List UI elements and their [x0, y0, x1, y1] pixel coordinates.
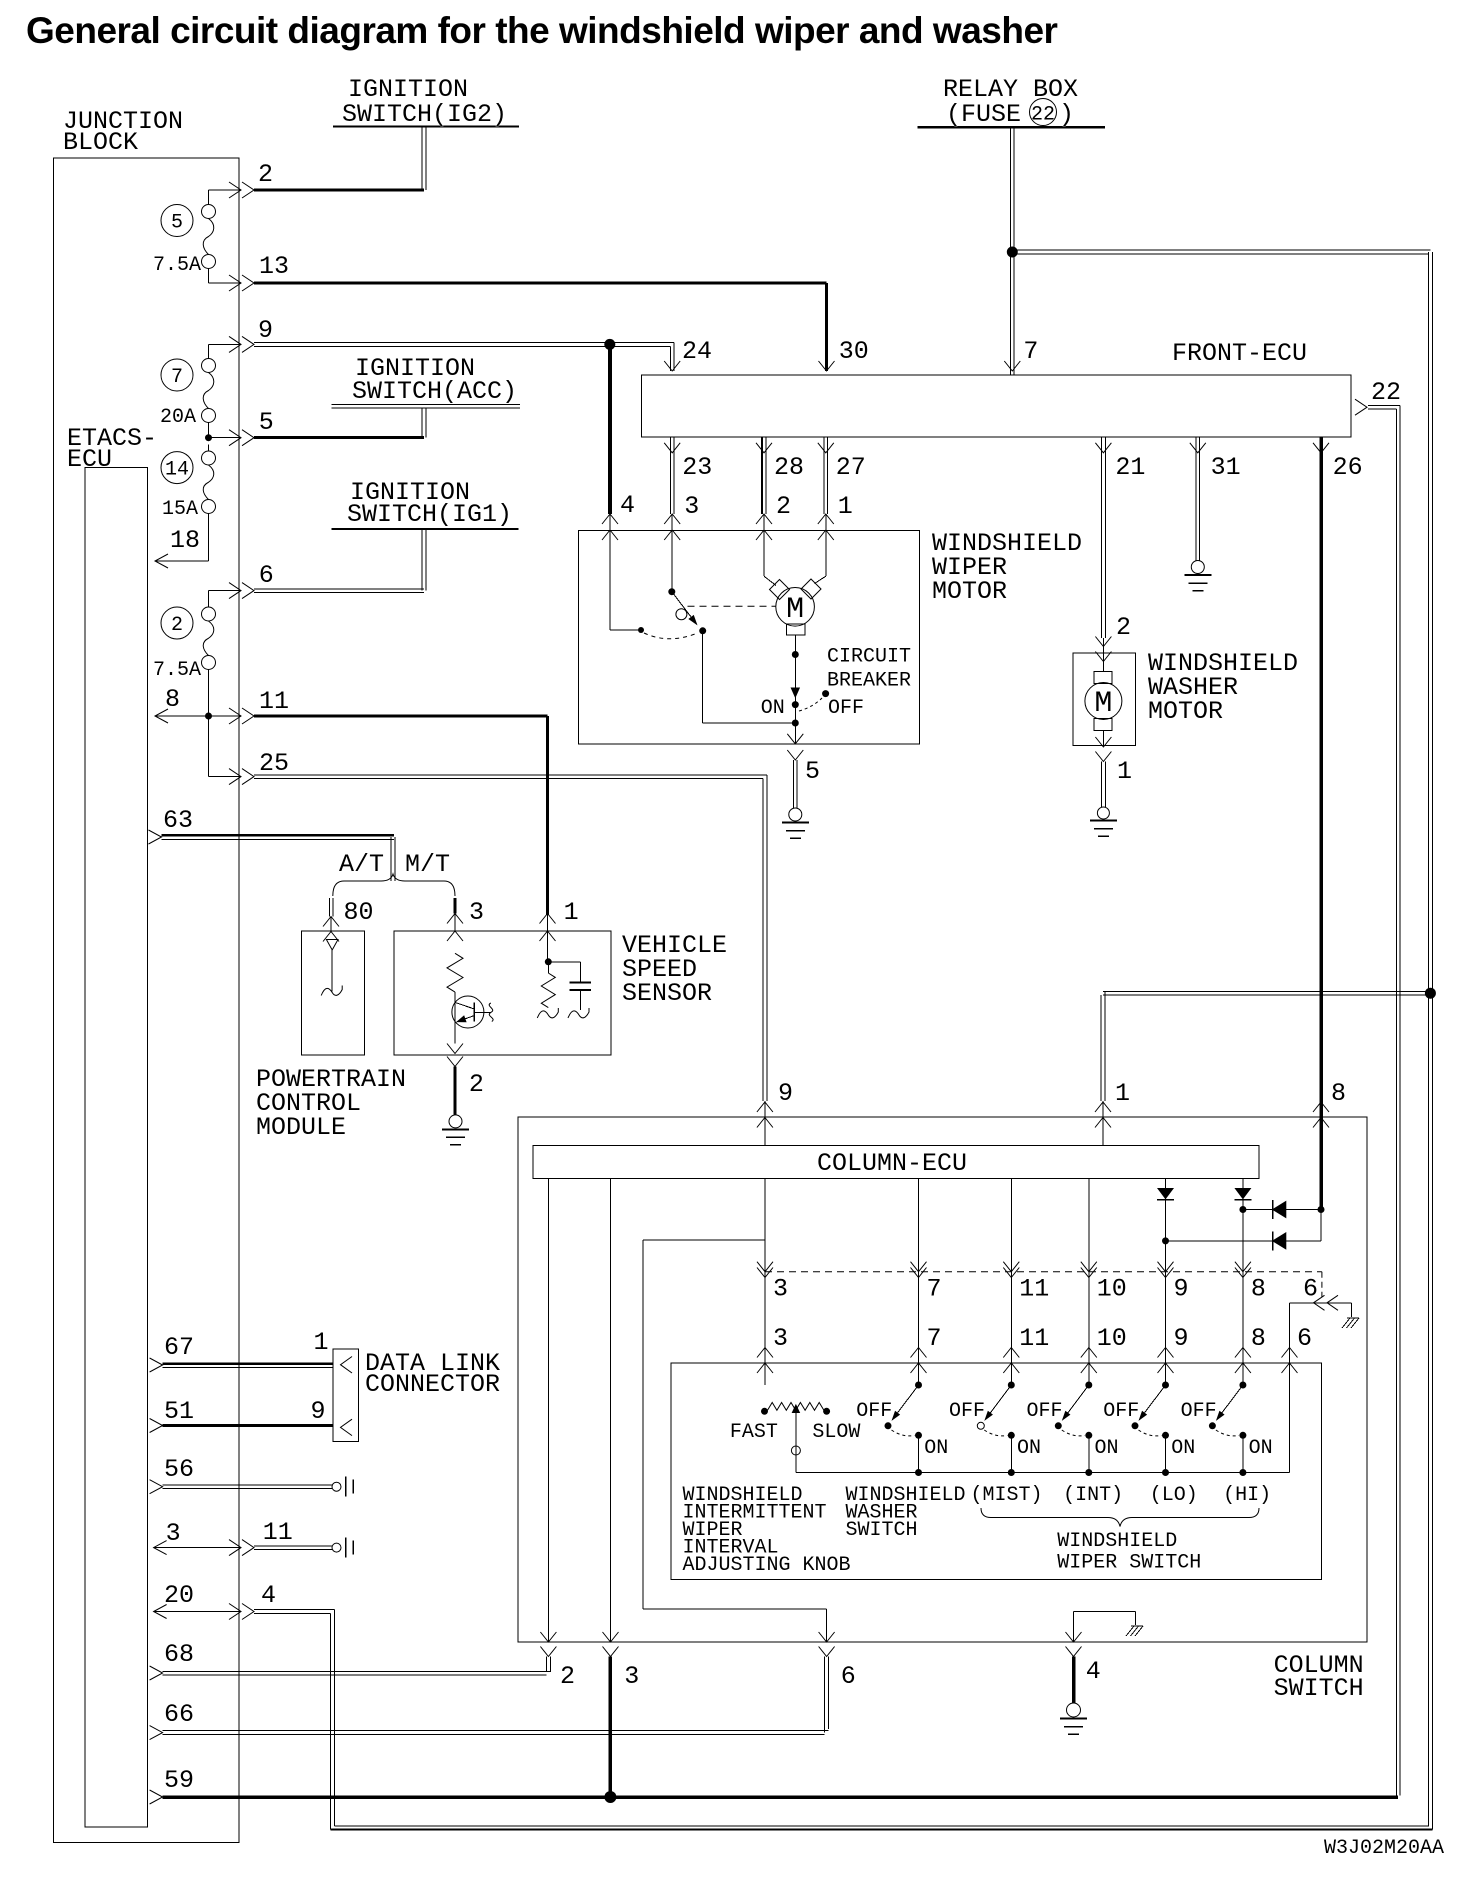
svg-text:ON: ON [924, 1437, 948, 1460]
svg-text:8: 8 [1251, 1324, 1266, 1353]
svg-text:General circuit diagram for th: General circuit diagram for the windshie… [26, 10, 1058, 51]
svg-text:67: 67 [164, 1333, 194, 1362]
svg-text:2: 2 [171, 614, 183, 637]
svg-text:30: 30 [839, 337, 869, 366]
svg-text:W3J02M20AA: W3J02M20AA [1324, 1837, 1444, 1860]
svg-text:MOTOR: MOTOR [1148, 697, 1223, 726]
svg-text:COLUMN-ECU: COLUMN-ECU [817, 1149, 967, 1178]
svg-text:7: 7 [171, 366, 183, 389]
svg-text:5: 5 [171, 212, 183, 235]
svg-text:BLOCK: BLOCK [63, 128, 138, 157]
svg-text:5: 5 [805, 757, 820, 786]
svg-text:2: 2 [1116, 613, 1131, 642]
svg-text:ON: ON [1249, 1437, 1273, 1460]
svg-text:7.5A: 7.5A [153, 254, 201, 277]
svg-text:26: 26 [1333, 453, 1363, 482]
svg-text:7: 7 [927, 1275, 942, 1304]
svg-text:80: 80 [344, 898, 374, 927]
svg-text:(HI): (HI) [1223, 1484, 1271, 1507]
svg-text:1: 1 [1115, 1079, 1130, 1108]
svg-text:OFF: OFF [1181, 1400, 1217, 1423]
svg-text:21: 21 [1115, 453, 1145, 482]
svg-text:23: 23 [682, 453, 712, 482]
svg-text:ON: ON [1171, 1437, 1195, 1460]
svg-text:8: 8 [1331, 1079, 1346, 1108]
svg-text:18: 18 [170, 526, 200, 555]
svg-text:8: 8 [165, 685, 180, 714]
svg-text:24: 24 [682, 337, 712, 366]
svg-text:6: 6 [841, 1662, 856, 1691]
svg-text:56: 56 [164, 1455, 194, 1484]
svg-text:3: 3 [624, 1662, 639, 1691]
svg-text:9: 9 [1174, 1275, 1189, 1304]
svg-text:ON: ON [761, 697, 785, 720]
svg-text:7.5A: 7.5A [153, 659, 201, 682]
svg-text:(INT): (INT) [1063, 1484, 1123, 1507]
svg-text:ON: ON [1095, 1437, 1119, 1460]
svg-text:SWITCH: SWITCH [846, 1519, 918, 1542]
svg-text:OFF: OFF [949, 1400, 985, 1423]
svg-text:8: 8 [1251, 1275, 1266, 1304]
svg-text:MOTOR: MOTOR [932, 577, 1007, 606]
svg-text:3: 3 [773, 1275, 788, 1304]
svg-text:M: M [786, 593, 804, 627]
svg-text:1: 1 [838, 492, 853, 521]
svg-text:10: 10 [1097, 1324, 1127, 1353]
svg-text:M: M [1094, 687, 1112, 721]
svg-text:1: 1 [314, 1328, 329, 1357]
svg-text:11: 11 [259, 687, 289, 716]
svg-text:15A: 15A [162, 498, 198, 521]
svg-text:SWITCH(IG1): SWITCH(IG1) [347, 500, 512, 529]
svg-text:(MIST): (MIST) [971, 1484, 1043, 1507]
svg-text:OFF: OFF [828, 697, 864, 720]
svg-text:): ) [1059, 100, 1074, 129]
svg-text:4: 4 [620, 491, 635, 520]
svg-text:FRONT-ECU: FRONT-ECU [1172, 339, 1307, 368]
svg-text:WIPER SWITCH: WIPER SWITCH [1057, 1552, 1201, 1575]
svg-text:3: 3 [684, 492, 699, 521]
svg-text:3: 3 [469, 898, 484, 927]
svg-text:22: 22 [1031, 104, 1055, 127]
svg-text:13: 13 [259, 252, 289, 281]
svg-text:SWITCH: SWITCH [1274, 1674, 1364, 1703]
svg-text:OFF: OFF [1103, 1400, 1139, 1423]
svg-text:CIRCUIT: CIRCUIT [827, 646, 911, 669]
svg-text:11: 11 [1019, 1275, 1049, 1304]
svg-text:7: 7 [1023, 337, 1038, 366]
svg-text:SENSOR: SENSOR [622, 979, 712, 1008]
svg-text:WINDSHIELD: WINDSHIELD [1057, 1530, 1177, 1553]
svg-text:ECU: ECU [67, 445, 112, 474]
svg-text:ADJUSTING KNOB: ADJUSTING KNOB [683, 1554, 851, 1577]
svg-text:31: 31 [1211, 453, 1241, 482]
svg-text:66: 66 [164, 1700, 194, 1729]
svg-text:3: 3 [773, 1324, 788, 1353]
svg-text:OFF: OFF [856, 1400, 892, 1423]
svg-text:(LO): (LO) [1150, 1484, 1198, 1507]
svg-text:9: 9 [778, 1079, 793, 1108]
svg-text:9: 9 [258, 316, 273, 345]
svg-text:CONNECTOR: CONNECTOR [365, 1370, 500, 1399]
svg-text:6: 6 [259, 561, 274, 590]
svg-text:51: 51 [164, 1397, 194, 1426]
svg-text:4: 4 [261, 1581, 276, 1610]
svg-text:OFF: OFF [1027, 1400, 1063, 1423]
svg-text:2: 2 [258, 160, 273, 189]
svg-text:5: 5 [259, 408, 274, 437]
svg-text:MODULE: MODULE [256, 1113, 346, 1142]
svg-text:1: 1 [1117, 757, 1132, 786]
svg-text:28: 28 [774, 453, 804, 482]
svg-text:59: 59 [164, 1766, 194, 1795]
svg-text:2: 2 [560, 1662, 575, 1691]
svg-text:BREAKER: BREAKER [827, 670, 911, 693]
svg-text:SWITCH(IG2): SWITCH(IG2) [342, 100, 507, 129]
svg-text:M/T: M/T [405, 850, 450, 879]
svg-text:6: 6 [1297, 1324, 1312, 1353]
svg-text:4: 4 [1086, 1657, 1101, 1686]
svg-text:2: 2 [776, 492, 791, 521]
svg-text:2: 2 [469, 1070, 484, 1099]
svg-text:3: 3 [166, 1519, 181, 1548]
svg-text:10: 10 [1097, 1275, 1127, 1304]
svg-text:SLOW: SLOW [812, 1421, 860, 1444]
svg-text:20A: 20A [160, 406, 196, 429]
svg-text:9: 9 [311, 1397, 326, 1426]
svg-text:27: 27 [836, 453, 866, 482]
svg-text:22: 22 [1371, 378, 1401, 407]
svg-text:9: 9 [1174, 1324, 1189, 1353]
svg-text:25: 25 [259, 749, 289, 778]
svg-text:14: 14 [165, 459, 189, 482]
svg-text:1: 1 [564, 898, 579, 927]
svg-text:6: 6 [1303, 1275, 1318, 1304]
svg-text:7: 7 [927, 1324, 942, 1353]
svg-text:SWITCH(ACC): SWITCH(ACC) [352, 377, 517, 406]
svg-text:A/T: A/T [339, 850, 384, 879]
svg-text:63: 63 [163, 806, 193, 835]
svg-text:68: 68 [164, 1640, 194, 1669]
svg-text:(FUSE: (FUSE [946, 100, 1021, 129]
svg-text:FAST: FAST [730, 1421, 778, 1444]
svg-text:11: 11 [1019, 1324, 1049, 1353]
svg-text:11: 11 [263, 1518, 293, 1547]
svg-text:ON: ON [1017, 1437, 1041, 1460]
svg-text:20: 20 [164, 1581, 194, 1610]
